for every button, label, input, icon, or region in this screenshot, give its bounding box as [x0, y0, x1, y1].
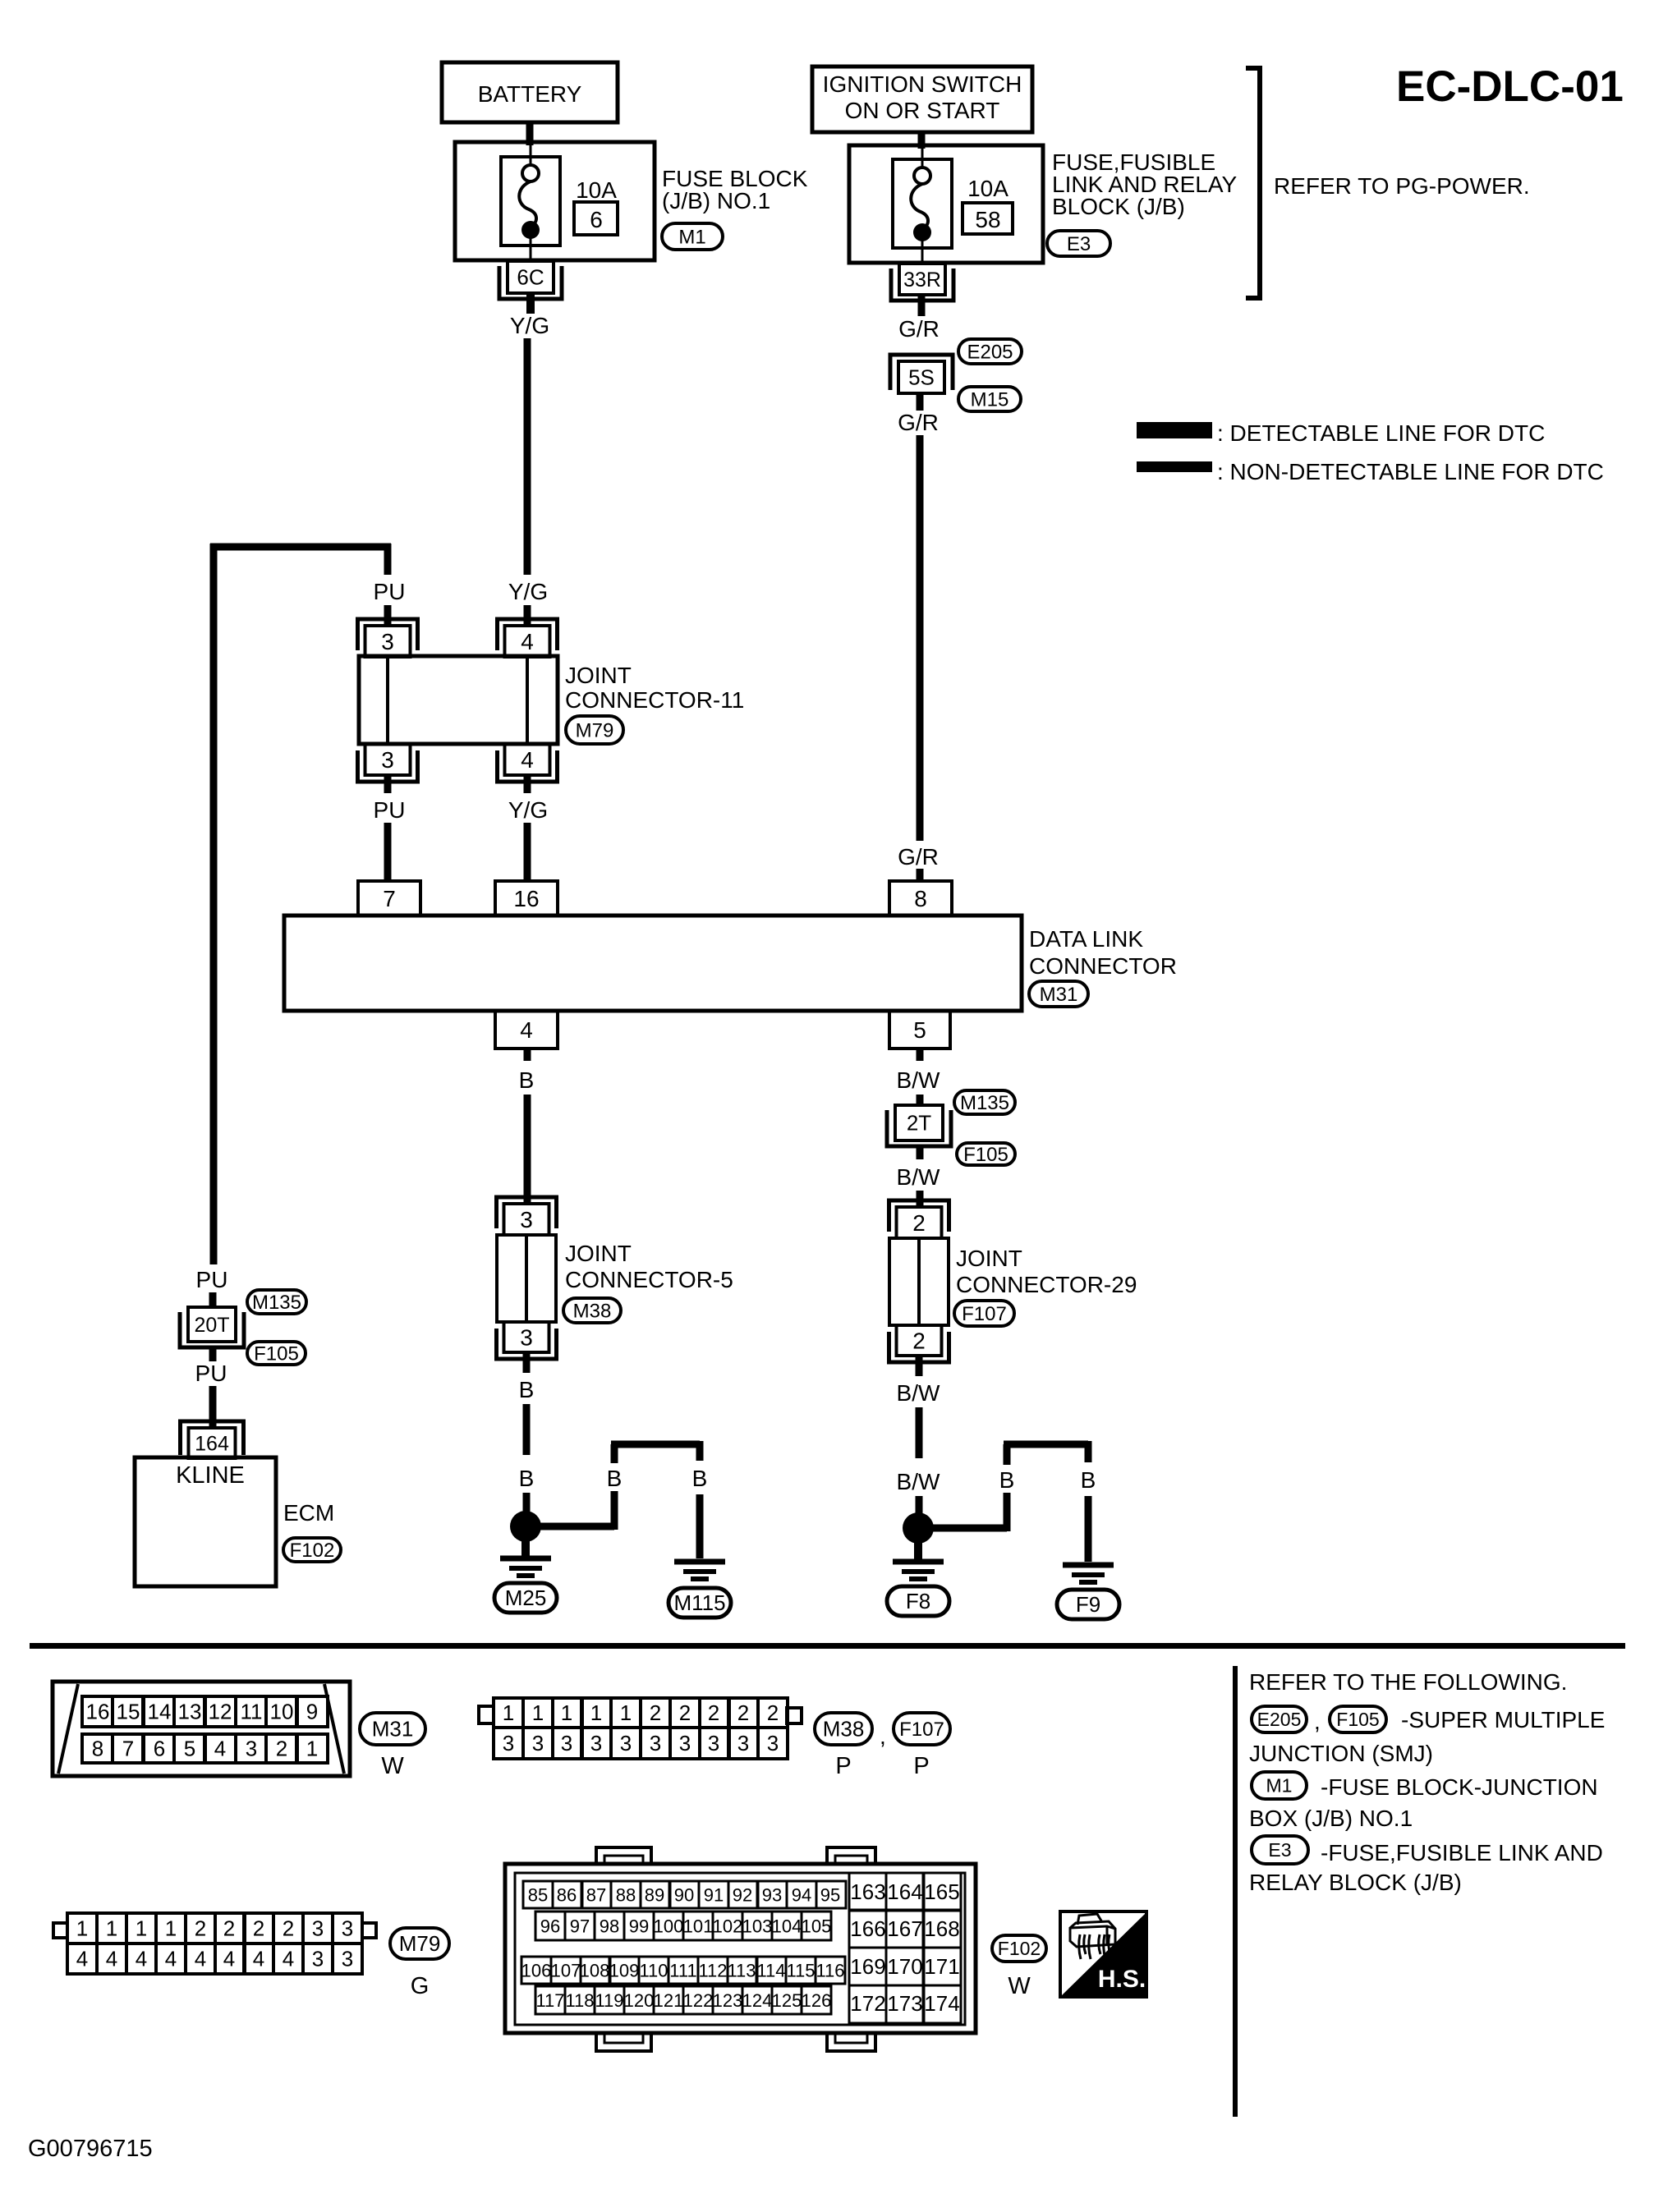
svg-text:3: 3 — [679, 1731, 691, 1755]
svg-text:95: 95 — [820, 1884, 840, 1905]
svg-text:E205: E205 — [1257, 1709, 1302, 1730]
svg-text:121: 121 — [654, 1990, 684, 2011]
wire PU from joint connector-11 to pin 7 — [384, 775, 392, 793]
joint connector-29 body F107 — [889, 1238, 949, 1325]
svg-text:1: 1 — [503, 1700, 514, 1725]
svg-text:F8: F8 — [906, 1589, 930, 1613]
svg-text:170: 170 — [887, 1954, 922, 1979]
svg-text:109: 109 — [609, 1960, 640, 1980]
wire stub below 20T — [209, 1347, 217, 1361]
joint connector-29 pin 2 bottom — [889, 1332, 949, 1362]
svg-text:125: 125 — [772, 1990, 802, 2011]
joint connector-5 pin 3 top — [497, 1197, 557, 1228]
fuse block (J/B) NO.1 box M1 — [455, 142, 655, 260]
pinout ref M38 oval — [815, 1713, 872, 1745]
svg-text:4: 4 — [521, 629, 534, 654]
svg-text:4: 4 — [520, 1017, 533, 1043]
wire label B/W below 2T — [917, 1145, 924, 1159]
svg-text:BOX (J/B) NO.1: BOX (J/B) NO.1 — [1249, 1806, 1413, 1831]
svg-text:M25: M25 — [505, 1586, 547, 1610]
svg-text:5: 5 — [184, 1737, 195, 1761]
svg-text:5S: 5S — [908, 365, 935, 390]
svg-text:JOINT: JOINT — [956, 1246, 1022, 1271]
svg-text:16: 16 — [86, 1700, 110, 1724]
svg-text:M38: M38 — [823, 1717, 865, 1742]
svg-text:1: 1 — [306, 1737, 318, 1761]
svg-text:F9: F9 — [1076, 1592, 1100, 1617]
data link connector pin 16 — [495, 881, 558, 916]
svg-text:104: 104 — [772, 1916, 802, 1936]
svg-text:110: 110 — [639, 1960, 668, 1980]
joint connector-5 pin 3 bottom — [497, 1329, 557, 1359]
svg-text:4: 4 — [521, 747, 534, 773]
fuse 6 10A symbol — [501, 157, 560, 246]
svg-text:Y/G: Y/G — [510, 313, 549, 338]
svg-text:4: 4 — [195, 1947, 206, 1971]
svg-text:PU: PU — [196, 1267, 228, 1292]
svg-text:3: 3 — [520, 1325, 533, 1351]
pinout M38 F107 connector face — [479, 1706, 494, 1723]
grouping bracket right of fuse blocks — [1246, 68, 1260, 298]
svg-text:126: 126 — [802, 1990, 832, 2011]
svg-text:114: 114 — [756, 1960, 785, 1980]
svg-text:6C: 6C — [517, 265, 544, 290]
svg-text:BATTERY: BATTERY — [478, 81, 582, 107]
svg-text:3: 3 — [503, 1731, 514, 1755]
svg-text:167: 167 — [887, 1916, 922, 1941]
svg-text:,: , — [880, 1723, 886, 1749]
svg-text:B/W: B/W — [897, 1380, 940, 1406]
svg-text:6: 6 — [590, 207, 603, 232]
wire B/W label below pin 5 — [917, 1049, 924, 1061]
svg-text:3: 3 — [737, 1731, 749, 1755]
svg-text:F105: F105 — [963, 1144, 1008, 1166]
svg-text:F105: F105 — [254, 1342, 299, 1365]
svg-text:G/R: G/R — [898, 844, 939, 870]
svg-text:2: 2 — [912, 1329, 926, 1354]
svg-text:4: 4 — [165, 1947, 177, 1971]
svg-text:3: 3 — [381, 629, 394, 654]
svg-text:3: 3 — [246, 1737, 257, 1761]
svg-text:3: 3 — [650, 1731, 661, 1755]
svg-text:120: 120 — [624, 1990, 655, 2011]
svg-text:3: 3 — [381, 747, 394, 773]
svg-text:101: 101 — [683, 1916, 714, 1936]
svg-text:M79: M79 — [576, 719, 614, 741]
svg-text:3: 3 — [312, 1916, 324, 1941]
svg-text:102: 102 — [713, 1916, 743, 1936]
joint connector-11 pin 4 bottom — [498, 750, 558, 782]
svg-text:PU: PU — [374, 797, 406, 823]
connector ref M31 oval — [1029, 981, 1088, 1007]
svg-text:9: 9 — [306, 1700, 318, 1724]
right column divider line — [1233, 1666, 1238, 2117]
connector 6C — [499, 266, 562, 299]
svg-text:58: 58 — [975, 207, 1000, 232]
connector 164 — [181, 1421, 244, 1455]
svg-text:W: W — [1008, 1973, 1031, 1999]
svg-text:1: 1 — [165, 1916, 177, 1941]
wire down to ground M115 — [696, 1441, 704, 1461]
svg-text:2: 2 — [679, 1700, 691, 1725]
svg-text:M79: M79 — [399, 1931, 441, 1956]
pinout F102 ECM connector face — [505, 1864, 976, 2033]
svg-text:98: 98 — [600, 1916, 619, 1936]
ref F105 oval note — [1330, 1706, 1386, 1732]
wire B from pin 4 to joint connector-5 — [524, 1095, 531, 1202]
joint connector-11 pin 3 top — [358, 619, 418, 650]
svg-text:16: 16 — [513, 886, 539, 911]
wire from junction dot to F9 branch — [930, 1525, 1007, 1532]
svg-text:REFER TO PG-POWER.: REFER TO PG-POWER. — [1274, 173, 1530, 199]
svg-text:1: 1 — [590, 1700, 602, 1725]
svg-text:7: 7 — [383, 886, 396, 911]
svg-text:F107: F107 — [962, 1303, 1007, 1325]
svg-text:B: B — [519, 1466, 535, 1491]
svg-text:4: 4 — [223, 1947, 235, 1971]
svg-text:4: 4 — [214, 1737, 226, 1761]
svg-text:93: 93 — [762, 1884, 782, 1905]
separator line — [30, 1643, 1625, 1649]
svg-text:20T: 20T — [194, 1314, 229, 1337]
joint connector-5 body M38 — [497, 1235, 556, 1322]
svg-text:3: 3 — [520, 1207, 533, 1232]
svg-text:B: B — [607, 1466, 623, 1491]
svg-text:11: 11 — [241, 1700, 263, 1724]
svg-text:CONNECTOR-5: CONNECTOR-5 — [565, 1267, 733, 1292]
connector ref F102 oval — [283, 1538, 341, 1562]
wire stub below 6C — [526, 293, 535, 314]
svg-text:P: P — [913, 1753, 929, 1779]
connector ref M79 oval — [566, 716, 623, 744]
ground symbol F9 — [1063, 1563, 1114, 1568]
svg-text:14: 14 — [148, 1700, 172, 1724]
svg-text:6: 6 — [154, 1737, 165, 1761]
svg-text:M31: M31 — [1040, 984, 1078, 1006]
wire B label below pin 4 — [524, 1049, 531, 1061]
svg-text:116: 116 — [816, 1960, 844, 1980]
svg-text:W: W — [381, 1753, 404, 1779]
svg-text:PU: PU — [195, 1361, 227, 1386]
svg-text:Y/G: Y/G — [508, 797, 548, 823]
svg-text:100: 100 — [654, 1916, 684, 1936]
svg-text:164: 164 — [887, 1879, 922, 1904]
wire B/W short to 2T — [917, 1095, 924, 1105]
wire Y/G from joint connector-11 to pin 16 — [524, 775, 531, 793]
svg-text:M15: M15 — [971, 388, 1009, 411]
ref M1 oval note — [1252, 1772, 1307, 1799]
svg-text:M135: M135 — [252, 1292, 301, 1314]
svg-text:F102: F102 — [290, 1540, 335, 1562]
joint connector-11 pin 3 bottom — [358, 750, 418, 782]
svg-text:3: 3 — [561, 1731, 572, 1755]
svg-text:10A: 10A — [967, 176, 1008, 201]
connector 20T — [180, 1312, 244, 1347]
svg-text:119: 119 — [595, 1990, 623, 2011]
fuse fusible link and relay block E3 box — [849, 145, 1043, 263]
svg-text:REFER TO THE FOLLOWING.: REFER TO THE FOLLOWING. — [1249, 1669, 1567, 1695]
svg-text:IGNITION SWITCH: IGNITION SWITCH — [823, 71, 1022, 97]
svg-text:,: , — [1314, 1709, 1321, 1734]
svg-text:G/R: G/R — [898, 316, 940, 342]
svg-text:4: 4 — [76, 1947, 88, 1971]
svg-text:CONNECTOR-11: CONNECTOR-11 — [565, 687, 744, 713]
pinout ref M31 oval — [360, 1713, 425, 1745]
data link connector pin 7 — [358, 881, 420, 916]
svg-text:94: 94 — [792, 1884, 811, 1905]
connector ref M1 oval — [662, 223, 723, 250]
ignition switch box — [812, 67, 1032, 132]
svg-text:F107: F107 — [899, 1719, 944, 1741]
svg-text:B: B — [519, 1377, 535, 1402]
fuse 58 10A symbol — [893, 159, 952, 248]
svg-text:99: 99 — [629, 1916, 649, 1936]
svg-text:JOINT: JOINT — [565, 1241, 632, 1266]
svg-text:107: 107 — [551, 1960, 581, 1980]
svg-text:5: 5 — [913, 1017, 926, 1043]
ref F105 oval — [957, 1143, 1015, 1165]
svg-text:113: 113 — [727, 1960, 756, 1980]
svg-text:3: 3 — [342, 1947, 353, 1971]
svg-text:B: B — [999, 1467, 1015, 1493]
pinout ref F102 oval — [992, 1935, 1046, 1962]
svg-text:E3: E3 — [1268, 1839, 1291, 1861]
wire stub to 20T — [209, 1292, 217, 1307]
ground junction dot M25 branch — [510, 1511, 541, 1542]
wire PU to ECM pin 164 — [209, 1386, 217, 1428]
svg-text:118: 118 — [565, 1990, 594, 2011]
svg-text:88: 88 — [616, 1884, 636, 1905]
H.S. harness side logo — [1062, 1914, 1145, 1995]
svg-text:M38: M38 — [573, 1300, 612, 1322]
svg-text:B/W: B/W — [897, 1164, 940, 1190]
svg-text:4: 4 — [106, 1947, 117, 1971]
svg-text:M135: M135 — [960, 1092, 1009, 1114]
connector ref F107 oval — [954, 1301, 1014, 1326]
svg-text:3: 3 — [767, 1731, 779, 1755]
svg-text:ECM: ECM — [283, 1500, 334, 1526]
svg-text:CONNECTOR: CONNECTOR — [1029, 953, 1177, 979]
svg-text:JUNCTION (SMJ): JUNCTION (SMJ) — [1249, 1741, 1433, 1766]
svg-text:4: 4 — [283, 1947, 294, 1971]
svg-text:124: 124 — [742, 1990, 773, 2011]
svg-text:103: 103 — [742, 1916, 773, 1936]
joint connector-29 pin 2 top — [889, 1200, 949, 1232]
svg-text:2: 2 — [253, 1916, 264, 1941]
data link connector pin 4 — [495, 1011, 558, 1049]
svg-text:B/W: B/W — [897, 1067, 940, 1093]
svg-text:H.S.: H.S. — [1098, 1966, 1146, 1993]
svg-text:112: 112 — [698, 1960, 727, 1980]
data link connector pin 8 — [889, 881, 952, 916]
svg-text:172: 172 — [850, 1991, 885, 2016]
svg-text:123: 123 — [713, 1990, 743, 2011]
svg-text:8: 8 — [92, 1737, 103, 1761]
svg-text:2: 2 — [223, 1916, 235, 1941]
svg-text:RELAY BLOCK (J/B): RELAY BLOCK (J/B) — [1249, 1870, 1462, 1895]
svg-text:2: 2 — [276, 1737, 287, 1761]
svg-text:8: 8 — [914, 886, 927, 911]
svg-text:1: 1 — [620, 1700, 632, 1725]
connector 5S — [890, 355, 953, 390]
connector 33R — [891, 268, 953, 301]
pinout ref M79 oval — [390, 1928, 449, 1959]
svg-text:108: 108 — [580, 1960, 610, 1980]
svg-text:2T: 2T — [907, 1111, 931, 1136]
svg-text:B: B — [519, 1067, 535, 1093]
svg-text:F105: F105 — [1336, 1709, 1379, 1730]
svg-text:86: 86 — [557, 1884, 577, 1905]
svg-text:85: 85 — [528, 1884, 548, 1905]
svg-text:CONNECTOR-29: CONNECTOR-29 — [956, 1272, 1137, 1297]
svg-text:15: 15 — [117, 1700, 140, 1724]
legend detectable line sample bar — [1137, 422, 1212, 438]
svg-text:P: P — [835, 1753, 851, 1779]
svg-text:G: G — [411, 1973, 430, 1999]
svg-text:168: 168 — [924, 1916, 959, 1941]
data link connector box M31 — [284, 916, 1022, 1011]
joint connector-11 body M79 — [359, 656, 558, 744]
svg-text:111: 111 — [669, 1960, 696, 1980]
svg-text:B/W: B/W — [897, 1469, 940, 1494]
svg-text:105: 105 — [802, 1916, 832, 1936]
ref E205 oval note — [1252, 1706, 1307, 1732]
svg-text:3: 3 — [620, 1731, 632, 1755]
ground symbol M115 — [674, 1559, 725, 1565]
svg-text:BLOCK (J/B): BLOCK (J/B) — [1052, 194, 1185, 219]
wire PU horizontal run at top — [210, 544, 391, 551]
wire B below joint connector-5 — [523, 1352, 531, 1373]
ground symbol M25 — [521, 1539, 530, 1558]
svg-text:M31: M31 — [372, 1717, 414, 1742]
svg-text:G/R: G/R — [898, 410, 939, 435]
svg-text:F102: F102 — [998, 1938, 1041, 1959]
svg-text:3: 3 — [708, 1731, 719, 1755]
svg-text:2: 2 — [283, 1916, 294, 1941]
wire PU far-left vertical run to ECM — [210, 544, 218, 1264]
svg-text:2: 2 — [195, 1916, 206, 1941]
wire Y/G from 6C to joint connector-11 pin 4 — [524, 338, 531, 575]
svg-text:91: 91 — [704, 1884, 724, 1905]
svg-text:PU: PU — [374, 579, 406, 604]
svg-text:G00796715: G00796715 — [28, 2136, 153, 2162]
svg-text:87: 87 — [586, 1884, 606, 1905]
svg-text:JOINT: JOINT — [565, 663, 632, 688]
svg-text:E3: E3 — [1067, 233, 1091, 255]
svg-text:1: 1 — [136, 1916, 147, 1941]
wire G/R from 5S to data link connector pin 8 — [917, 393, 924, 411]
svg-text:-SUPER MULTIPLE: -SUPER MULTIPLE — [1401, 1707, 1605, 1732]
svg-text:165: 165 — [924, 1879, 959, 1904]
svg-text:171: 171 — [924, 1954, 959, 1979]
svg-text:2: 2 — [708, 1700, 719, 1725]
svg-text:115: 115 — [786, 1960, 815, 1980]
fuse number 58 box — [963, 203, 1013, 234]
svg-text:2: 2 — [912, 1210, 926, 1236]
wire battery to fuse block M1 — [526, 122, 534, 145]
svg-text:10A: 10A — [576, 177, 617, 203]
svg-text:(J/B) NO.1: (J/B) NO.1 — [662, 188, 770, 213]
pinout ref F107 oval — [894, 1713, 950, 1745]
svg-text:10: 10 — [270, 1700, 294, 1724]
svg-text:96: 96 — [540, 1916, 560, 1936]
ref M15 oval — [958, 387, 1021, 411]
svg-text:90: 90 — [674, 1884, 694, 1905]
svg-text:Y/G: Y/G — [508, 579, 548, 604]
svg-text:89: 89 — [645, 1884, 664, 1905]
svg-text:92: 92 — [733, 1884, 752, 1905]
svg-text:2: 2 — [767, 1700, 779, 1725]
svg-text:KLINE: KLINE — [176, 1462, 245, 1489]
legend non-detectable line sample bar — [1137, 461, 1212, 472]
svg-text:106: 106 — [521, 1960, 552, 1980]
svg-text:97: 97 — [570, 1916, 590, 1936]
wire from junction dot to M115 branch — [538, 1523, 614, 1531]
svg-text:117: 117 — [535, 1990, 564, 2011]
ref F105 oval left — [247, 1342, 306, 1365]
svg-text:1: 1 — [76, 1916, 88, 1941]
svg-text:1: 1 — [532, 1700, 544, 1725]
wire B/W to joint connector-29 — [917, 1191, 924, 1207]
ground junction dot F8 branch — [903, 1512, 934, 1544]
svg-text:-FUSE BLOCK-JUNCTION: -FUSE BLOCK-JUNCTION — [1321, 1774, 1598, 1800]
svg-text:B: B — [1081, 1467, 1096, 1493]
svg-text:166: 166 — [850, 1916, 885, 1941]
svg-text:3: 3 — [312, 1947, 324, 1971]
svg-text:M115: M115 — [673, 1590, 725, 1615]
ref M135 oval left — [247, 1290, 306, 1314]
svg-text:4: 4 — [136, 1947, 147, 1971]
connector 2T — [887, 1110, 951, 1146]
svg-text:M1: M1 — [678, 226, 705, 248]
svg-text:: DETECTABLE LINE FOR DTC: : DETECTABLE LINE FOR DTC — [1217, 420, 1545, 446]
svg-text:169: 169 — [850, 1954, 885, 1979]
svg-text:2: 2 — [737, 1700, 749, 1725]
svg-text:174: 174 — [924, 1991, 959, 2016]
ground symbol F8 — [914, 1540, 922, 1561]
svg-text:EC-DLC-01: EC-DLC-01 — [1396, 62, 1624, 111]
svg-text:4: 4 — [253, 1947, 264, 1971]
ref M135 oval — [954, 1090, 1015, 1114]
svg-text:1: 1 — [561, 1700, 572, 1725]
svg-text:7: 7 — [122, 1737, 134, 1761]
svg-text:: NON-DETECTABLE LINE FOR DTC: : NON-DETECTABLE LINE FOR DTC — [1217, 459, 1604, 484]
connector ref M38 oval — [563, 1298, 621, 1323]
ref E205 oval — [958, 339, 1022, 364]
svg-text:3: 3 — [590, 1731, 602, 1755]
svg-text:163: 163 — [850, 1879, 885, 1904]
svg-text:173: 173 — [887, 1991, 922, 2016]
wire ignition to fuse block E3 — [918, 132, 926, 149]
svg-text:E205: E205 — [967, 341, 1013, 363]
svg-text:B: B — [692, 1466, 708, 1491]
svg-text:M1: M1 — [1266, 1775, 1293, 1797]
svg-text:DATA LINK: DATA LINK — [1029, 926, 1143, 952]
svg-text:3: 3 — [342, 1916, 353, 1941]
svg-text:1: 1 — [106, 1916, 117, 1941]
svg-text:2: 2 — [650, 1700, 661, 1725]
fuse number 6 box — [574, 202, 618, 235]
wire down to ground F9 — [1085, 1441, 1092, 1462]
wire PU vertical to joint connector-11 pin 3 — [384, 544, 392, 575]
svg-text:3: 3 — [532, 1731, 544, 1755]
svg-text:33R: 33R — [903, 268, 941, 291]
svg-text:13: 13 — [178, 1700, 202, 1724]
pinout M31 connector face — [53, 1682, 350, 1776]
ECM box — [135, 1457, 276, 1586]
svg-text:12: 12 — [209, 1700, 232, 1724]
wire B/W below joint connector-29 — [916, 1356, 923, 1376]
